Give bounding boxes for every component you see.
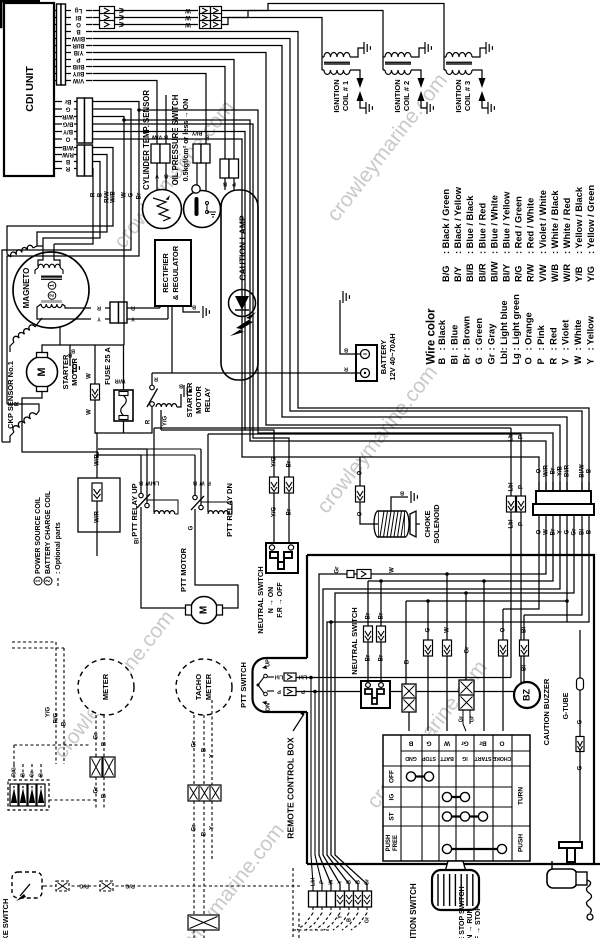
svg-text:2: 2 bbox=[49, 294, 55, 297]
svg-text:N → ON: N → ON bbox=[268, 587, 275, 613]
table contacts ST bbox=[447, 815, 483, 817]
svg-text:Br: Br bbox=[462, 354, 472, 365]
svg-text:Gr: Gr bbox=[486, 353, 496, 364]
svg-text:O: O bbox=[501, 627, 507, 632]
ignition coil #1 spark gap bbox=[350, 70, 360, 78]
main harness connector J1 bbox=[536, 491, 591, 504]
wire G to CKP sensor bbox=[2, 109, 131, 442]
svg-text:W: W bbox=[87, 409, 93, 415]
W/R holder box bbox=[95, 433, 97, 478]
tacho connector bbox=[188, 785, 221, 801]
svg-text:Gr: Gr bbox=[364, 878, 370, 885]
rectifier output wire bbox=[171, 306, 173, 373]
svg-text:: Pink: : Pink bbox=[536, 324, 546, 350]
svg-text:B: B bbox=[346, 880, 352, 884]
svg-text:P: P bbox=[277, 688, 281, 694]
svg-text:Gr: Gr bbox=[335, 566, 341, 574]
svg-text:G: G bbox=[426, 739, 431, 746]
svg-text:B: B bbox=[400, 490, 404, 496]
svg-text:1: 1 bbox=[49, 284, 55, 287]
svg-text:Y/G: Y/G bbox=[272, 457, 278, 468]
svg-text:: Blue / Red: : Blue / Red bbox=[477, 203, 487, 254]
svg-text:Y/B: Y/B bbox=[558, 465, 564, 476]
tacho meter gauge bbox=[176, 659, 232, 715]
svg-text:V: V bbox=[155, 173, 159, 179]
tacho bottom connector bbox=[188, 915, 219, 930]
svg-text:Bl/R: Bl/R bbox=[477, 263, 487, 282]
svg-text:NEUTRAL SWITCH: NEUTRAL SWITCH bbox=[256, 566, 265, 633]
svg-text:B: B bbox=[38, 773, 44, 777]
choke solenoid bracket bbox=[410, 511, 416, 537]
svg-text:OIL PRESSURE SWITCH: OIL PRESSURE SWITCH bbox=[171, 94, 180, 185]
CDI connector 3 bbox=[77, 145, 85, 176]
ptt relay feed rails bbox=[98, 448, 147, 450]
svg-text:CAUTION BUZZER: CAUTION BUZZER bbox=[542, 678, 551, 745]
magneto flywheel bbox=[13, 252, 89, 328]
magneto pulser coil upper bbox=[10, 244, 34, 257]
table contacts IG bbox=[447, 796, 465, 798]
wire R/W to pulser coil bbox=[37, 155, 107, 247]
ptt switch S5 bbox=[253, 658, 308, 712]
meter connectors bbox=[90, 757, 102, 777]
svg-text:G: G bbox=[578, 765, 584, 770]
svg-text:GND: GND bbox=[405, 755, 417, 761]
CDI pin O bbox=[54, 24, 57, 26]
svg-text:W: W bbox=[87, 373, 93, 379]
wire Br branch to main connector bbox=[137, 108, 141, 112]
magneto B wire bbox=[59, 327, 61, 345]
choke switch bbox=[12, 872, 42, 898]
fuse wires bbox=[123, 345, 125, 390]
coil number labels bbox=[48, 282, 56, 290]
svg-text:W: W bbox=[185, 21, 191, 27]
CDI connector 2 bbox=[77, 98, 85, 143]
wire P to ptt switch bbox=[208, 433, 521, 435]
tacho wires bbox=[193, 715, 195, 785]
svg-text:IG: IG bbox=[462, 755, 467, 761]
CDI pin P bbox=[54, 59, 57, 61]
svg-text:R/G: R/G bbox=[125, 883, 135, 889]
svg-text:P: P bbox=[76, 56, 80, 62]
CDI pin Lg bbox=[54, 10, 57, 12]
svg-text:Bl: Bl bbox=[449, 355, 459, 364]
svg-text:B: B bbox=[68, 352, 72, 358]
ptt relay dn output bbox=[194, 509, 196, 535]
wire Bl/Y to oil pressure switch bbox=[93, 74, 207, 145]
oil pressure switch PS1 bbox=[184, 191, 221, 228]
svg-text:: Yellow: : Yellow bbox=[585, 315, 595, 350]
svg-text:Lbl: Lbl bbox=[298, 674, 307, 680]
wire Bl-W to ignition coil 2 bbox=[93, 17, 101, 19]
svg-text:B: B bbox=[62, 721, 68, 726]
wire W/R branch to main connector bbox=[122, 118, 126, 122]
oil pressure switch connector bbox=[193, 144, 201, 163]
svg-text:R/W: R/W bbox=[62, 151, 74, 157]
wire Bl/R to main connector bbox=[93, 46, 568, 492]
svg-text:: Black / Green: : Black / Green bbox=[441, 189, 451, 254]
choke B ground bbox=[391, 497, 408, 511]
svg-text:Y: Y bbox=[585, 358, 595, 365]
svg-text:Br: Br bbox=[64, 98, 71, 104]
svg-text:V: V bbox=[561, 358, 571, 365]
engine stop switch clip bbox=[559, 842, 582, 848]
svg-text:Gr: Gr bbox=[461, 739, 469, 746]
svg-text:R: R bbox=[548, 358, 558, 365]
svg-text:Br: Br bbox=[551, 467, 557, 474]
svg-text:Y: Y bbox=[97, 316, 101, 322]
svg-text:: White: : White bbox=[573, 320, 583, 351]
svg-text:: Green: : Green bbox=[474, 318, 484, 351]
svg-text:W: W bbox=[445, 627, 451, 633]
rectifier input wires bbox=[127, 307, 160, 309]
CDI pin Y/B bbox=[54, 52, 57, 54]
svg-text:M: M bbox=[36, 367, 48, 376]
svg-text:COIL # 2: COIL # 2 bbox=[402, 81, 411, 111]
svg-text:: Blue / White: : Blue / White bbox=[489, 195, 499, 254]
svg-text:W: W bbox=[122, 192, 128, 198]
ignition coil #3 transformer bbox=[446, 53, 472, 58]
svg-text:: White / Red: : White / Red bbox=[562, 197, 572, 254]
svg-text:: Red / White: : Red / White bbox=[526, 198, 536, 254]
svg-text:B/Y: B/Y bbox=[453, 266, 463, 282]
svg-text:Gr: Gr bbox=[458, 715, 464, 722]
svg-text:O: O bbox=[358, 470, 364, 475]
CDI connector strip bbox=[57, 4, 62, 85]
power source coil bbox=[38, 244, 43, 266]
G-tube wire bbox=[579, 630, 581, 736]
CDI pin Bl/Y bbox=[54, 73, 57, 75]
wire Lg-W to ignition coil 3 bbox=[93, 10, 101, 12]
warning lamp bus bbox=[13, 764, 15, 778]
wire P to caution lamp bbox=[93, 60, 235, 160]
table contacts PUSH bbox=[447, 848, 502, 850]
wire Gr drop bbox=[465, 593, 467, 680]
svg-text:: Gray: : Gray bbox=[486, 323, 496, 351]
svg-text:Gr: Gr bbox=[465, 646, 471, 654]
CDI pin R/W bbox=[54, 154, 62, 156]
svg-text:Y: Y bbox=[210, 826, 216, 830]
ignition switch S1 body bbox=[446, 861, 466, 870]
svg-text:: Violet: : Violet bbox=[561, 320, 571, 351]
caution lamp housing bbox=[224, 178, 226, 190]
rail Y bbox=[323, 524, 560, 891]
svg-text:Bl: Bl bbox=[522, 665, 528, 671]
svg-text:: Black / Yellow: : Black / Yellow bbox=[453, 186, 463, 254]
svg-text:NEUTRAL SWITCH: NEUTRAL SWITCH bbox=[350, 607, 359, 674]
svg-text:Gr: Gr bbox=[94, 732, 100, 740]
starter motor R wire bbox=[22, 392, 98, 453]
svg-text:G: G bbox=[189, 525, 195, 530]
svg-text:: Yellow / Green: : Yellow / Green bbox=[586, 185, 596, 254]
CDI pin B/Y bbox=[54, 131, 62, 133]
rail Gr bbox=[335, 524, 574, 891]
engine stop switch cord bbox=[587, 880, 592, 913]
ignition coil #3 primary ground bbox=[472, 48, 486, 57]
wire B to connector bbox=[405, 601, 407, 684]
svg-text:Bl/W: Bl/W bbox=[489, 261, 499, 282]
svg-text:BATTERY CHARGE COIL: BATTERY CHARGE COIL bbox=[45, 490, 52, 574]
wire Y/G to neutral switch bbox=[161, 430, 274, 543]
wire Bl/W to main connector bbox=[93, 39, 583, 492]
svg-text:Y/G: Y/G bbox=[163, 416, 169, 427]
svg-text:R/G: R/G bbox=[79, 883, 89, 889]
fuse bypass connector W bbox=[94, 345, 96, 384]
ptt switch P row bbox=[267, 690, 274, 692]
svg-text:PTT MOTOR: PTT MOTOR bbox=[179, 547, 188, 592]
warning lamps bbox=[8, 780, 49, 810]
svg-text:B: B bbox=[102, 741, 108, 746]
svg-text:Lbl: Lbl bbox=[509, 482, 515, 491]
svg-text:MOTOR: MOTOR bbox=[70, 358, 79, 386]
CDI pin Bl/B bbox=[54, 66, 57, 68]
svg-text:Y/B: Y/B bbox=[574, 266, 584, 282]
svg-text:Y/B: Y/B bbox=[73, 49, 84, 55]
svg-text:B: B bbox=[20, 773, 26, 777]
svg-text:B: B bbox=[192, 304, 196, 310]
svg-text:W: W bbox=[185, 7, 191, 13]
svg-text:: Brown: : Brown bbox=[462, 316, 472, 351]
wire O to main connector bbox=[93, 139, 540, 491]
ptt relay up output bbox=[140, 507, 142, 548]
svg-text:SOLENOID: SOLENOID bbox=[432, 504, 441, 544]
svg-text:V/W: V/W bbox=[73, 77, 85, 83]
svg-text:Lbl: Lbl bbox=[499, 351, 509, 365]
svg-text:W/R: W/R bbox=[544, 465, 550, 477]
svg-text:Bl/W: Bl/W bbox=[72, 35, 86, 41]
wire O-W to ignition coil 1 bbox=[93, 24, 101, 26]
svg-text:ST: ST bbox=[389, 812, 396, 820]
svg-text:& REGULATOR: & REGULATOR bbox=[171, 245, 180, 300]
svg-text:Lbl: Lbl bbox=[310, 877, 316, 886]
CDI pin Br bbox=[54, 101, 62, 103]
rail Bl bbox=[524, 524, 582, 615]
svg-text:W: W bbox=[145, 480, 151, 486]
svg-text:R: R bbox=[97, 305, 101, 311]
svg-text:W/B: W/B bbox=[62, 144, 74, 150]
wire Y/B to main connector bbox=[93, 53, 561, 492]
svg-text:Br: Br bbox=[287, 508, 293, 515]
svg-text:IGNITION SWITCH: IGNITION SWITCH bbox=[409, 883, 418, 938]
ptt relay up coil bbox=[153, 428, 155, 512]
svg-text:R/G: R/G bbox=[11, 767, 17, 777]
remote control box outline bbox=[307, 555, 600, 864]
svg-text:B: B bbox=[346, 918, 352, 922]
magneto lower coil bbox=[12, 323, 35, 342]
ignition coil #2 spark gap bbox=[411, 70, 421, 78]
meter gauge bbox=[78, 659, 134, 715]
battery charge coil bbox=[41, 300, 62, 303]
ignition coil #2 primary ground bbox=[411, 48, 425, 57]
CDI pin B bbox=[54, 31, 57, 33]
svg-text:Wire color: Wire color bbox=[426, 308, 438, 365]
wire Bl to buzzer bbox=[523, 615, 525, 640]
svg-text:Gr: Gr bbox=[94, 786, 100, 794]
strip dashed tails bbox=[297, 913, 313, 930]
svg-text:FUSE 25 A: FUSE 25 A bbox=[103, 347, 112, 385]
svg-text:CHOKE: CHOKE bbox=[423, 510, 432, 537]
svg-text:PTT RELAY UP: PTT RELAY UP bbox=[130, 483, 139, 536]
wire Lbl to ptt switch bbox=[154, 427, 511, 429]
CDI pin R bbox=[54, 168, 62, 170]
svg-text:: Blue: : Blue bbox=[449, 325, 459, 351]
svg-text:TURN: TURN bbox=[518, 787, 525, 805]
svg-text:V/W: V/W bbox=[538, 264, 548, 282]
tacho lower wires bbox=[193, 801, 195, 915]
svg-text:Y: Y bbox=[210, 754, 216, 758]
caution lamp connector bbox=[220, 159, 229, 178]
svg-text:CHOKE SWITCH: CHOKE SWITCH bbox=[1, 899, 10, 938]
svg-text:METER: METER bbox=[204, 673, 213, 700]
neutral switch Br connector bbox=[285, 477, 294, 493]
svg-text:B: B bbox=[437, 358, 447, 365]
svg-text:O: O bbox=[76, 21, 81, 27]
svg-text:COIL # 1: COIL # 1 bbox=[341, 81, 350, 111]
svg-text:Lbl: Lbl bbox=[274, 674, 283, 680]
meter R/G B wires bbox=[55, 642, 57, 764]
starter relay coil bbox=[156, 404, 177, 407]
starter relay output wires bbox=[124, 406, 153, 433]
svg-text:Br: Br bbox=[379, 612, 385, 619]
svg-text:: Yellow / Black: : Yellow / Black bbox=[574, 186, 584, 254]
svg-text:PTT RELAY DN: PTT RELAY DN bbox=[225, 483, 234, 537]
svg-text:R: R bbox=[146, 419, 152, 424]
CDI pin G bbox=[54, 108, 62, 110]
caution lamp arrow bbox=[230, 312, 256, 336]
svg-text:R: R bbox=[91, 192, 97, 197]
svg-text:B: B bbox=[179, 383, 183, 389]
svg-text:RECTIFIER: RECTIFIER bbox=[161, 253, 170, 293]
ignition coil #1 transformer bbox=[324, 53, 350, 58]
svg-text:B/G: B/G bbox=[441, 265, 451, 282]
oil pressure switch pins bbox=[196, 163, 198, 186]
svg-text:Bl/Y: Bl/Y bbox=[191, 130, 202, 136]
svg-text:R: R bbox=[65, 165, 70, 171]
svg-text:STARTER: STARTER bbox=[185, 382, 194, 417]
ptt switch contacts bbox=[257, 684, 260, 687]
svg-text:Lg: Lg bbox=[511, 353, 521, 365]
svg-text:P: P bbox=[519, 522, 525, 526]
svg-text:W/R: W/R bbox=[562, 264, 572, 282]
svg-text:CHOKE: CHOKE bbox=[492, 755, 511, 761]
wire O drop bbox=[502, 609, 504, 640]
wire Br drop 2 bbox=[380, 581, 382, 626]
engine stop switch lanyard bbox=[547, 869, 577, 888]
svg-text:START: START bbox=[474, 755, 492, 761]
connector 2x2 B bbox=[402, 684, 416, 712]
ignition coil #2 transformer bbox=[385, 53, 411, 58]
svg-text:: Red / Green: : Red / Green bbox=[514, 196, 524, 254]
svg-text:IGNITION: IGNITION bbox=[332, 79, 341, 112]
svg-text:: Light blue: : Light blue bbox=[499, 300, 509, 350]
svg-text:G: G bbox=[578, 719, 584, 724]
svg-text:IGNITION: IGNITION bbox=[454, 79, 463, 112]
wire Br to CKP sensor bbox=[7, 102, 139, 405]
svg-text:G: G bbox=[129, 192, 135, 197]
svg-text:Br: Br bbox=[137, 192, 143, 199]
svg-text:FREE: FREE bbox=[393, 835, 399, 851]
svg-text:W/B: W/B bbox=[111, 191, 117, 203]
svg-text:W: W bbox=[390, 567, 396, 573]
svg-text:0.5kgf/cm² or less → ON: 0.5kgf/cm² or less → ON bbox=[181, 99, 190, 182]
svg-text:CYLINDER TEMP. SENSOR: CYLINDER TEMP. SENSOR bbox=[142, 90, 151, 190]
svg-text:Bl: Bl bbox=[75, 14, 81, 20]
battery BT1 bbox=[356, 345, 377, 381]
meter lower wires bbox=[95, 715, 97, 757]
svg-text:W: W bbox=[328, 879, 334, 885]
battery R wire bbox=[152, 372, 361, 374]
svg-text:B: B bbox=[164, 173, 168, 179]
starter motor M1 bbox=[27, 357, 58, 388]
remote control box arrow bbox=[293, 714, 304, 731]
svg-text:Gr: Gr bbox=[192, 740, 198, 748]
starter motor relay bbox=[151, 373, 153, 385]
svg-text:PUSH: PUSH bbox=[386, 835, 392, 852]
svg-text:Y/G: Y/G bbox=[272, 507, 278, 518]
wire G drop bbox=[427, 601, 429, 640]
svg-text:MAGNETO: MAGNETO bbox=[22, 268, 31, 309]
svg-text:: Blue / Yellow: : Blue / Yellow bbox=[501, 191, 511, 254]
svg-text:CDI UNIT: CDI UNIT bbox=[24, 66, 36, 112]
wire W to fuse rail bbox=[93, 117, 125, 346]
svg-text:M: M bbox=[199, 606, 210, 614]
svg-text:Y: Y bbox=[337, 880, 343, 884]
svg-text:: Black: : Black bbox=[437, 319, 447, 350]
svg-text:: Violet / White: : Violet / White bbox=[538, 190, 548, 254]
rectifier B ground bbox=[183, 306, 200, 312]
svg-text:Lg: Lg bbox=[75, 7, 83, 13]
neutral switch S3 bbox=[361, 681, 390, 708]
wire B/Y to relay Y/G bbox=[93, 132, 246, 431]
wire B to main connector bbox=[93, 32, 590, 492]
svg-text:W/R: W/R bbox=[62, 113, 74, 119]
svg-text:B: B bbox=[65, 158, 70, 164]
choke solenoid L1 bbox=[378, 511, 405, 537]
svg-text:STARTER: STARTER bbox=[61, 354, 70, 389]
svg-text:RELAY: RELAY bbox=[203, 388, 212, 413]
neutral switch Y/G connector bbox=[270, 477, 279, 493]
svg-text:Gr: Gr bbox=[192, 824, 198, 832]
svg-text:R: R bbox=[154, 376, 158, 382]
svg-text:B/G: B/G bbox=[62, 120, 73, 126]
svg-text:Bl/R: Bl/R bbox=[72, 42, 85, 48]
rail G bbox=[406, 524, 567, 601]
ignition switch table bbox=[383, 735, 530, 861]
svg-text:B: B bbox=[587, 468, 593, 473]
CDI pin O bbox=[54, 138, 62, 140]
svg-text:Bl: Bl bbox=[135, 538, 141, 544]
svg-text:P: P bbox=[536, 358, 546, 364]
svg-text:Lbl: Lbl bbox=[509, 519, 515, 528]
battery B wire and ground bbox=[340, 300, 361, 354]
svg-text:Bl/Y: Bl/Y bbox=[73, 70, 85, 76]
svg-text:TACHO: TACHO bbox=[194, 674, 203, 700]
wire Br to table bbox=[483, 581, 485, 731]
svg-text:Gr: Gr bbox=[29, 770, 35, 777]
CDI pin Bl/W bbox=[54, 38, 57, 40]
svg-text:W: W bbox=[199, 480, 205, 486]
svg-text:IN → RUN: IN → RUN bbox=[467, 908, 474, 938]
svg-text:R/G: R/G bbox=[54, 712, 60, 723]
starter B ground branch bbox=[69, 345, 71, 366]
svg-text:ENGINE STOP SWITCH: ENGINE STOP SWITCH bbox=[459, 886, 466, 938]
CDI pin V/W bbox=[54, 80, 57, 82]
choke O wire bbox=[359, 457, 361, 486]
page corner mark bbox=[0, 1, 40, 27]
svg-text:Bl/Y: Bl/Y bbox=[501, 263, 511, 282]
svg-text:Bl/R: Bl/R bbox=[565, 464, 571, 477]
svg-text:: Red: : Red bbox=[548, 327, 558, 351]
svg-text:R: R bbox=[15, 401, 21, 406]
